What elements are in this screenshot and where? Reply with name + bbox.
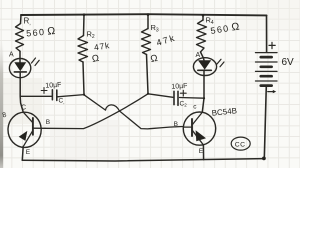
- wire: Q2 emitter to ground rail: [202, 145, 204, 160]
- node dot R3/C2 junction: [147, 93, 149, 95]
- battery plus sign: [269, 42, 275, 48]
- LED D1 circle: [9, 59, 30, 78]
- battery minus arrow mark: [268, 91, 274, 93]
- CC author oval: [231, 137, 250, 150]
- transistor Q1 base stroke: [33, 127, 45, 129]
- transistor Q1 emitter stroke: [24, 131, 33, 146]
- transistor Q2 collector stroke: [192, 112, 202, 124]
- LED D2 cathode bar: [198, 69, 212, 71]
- ground rail right corner blob: [262, 157, 266, 161]
- paper background: [0, 0, 300, 168]
- svg-text:B: B: [46, 119, 50, 126]
- svg-text:A: A: [196, 52, 201, 59]
- LED D2 triangle: [198, 60, 211, 69]
- node dot rail R2: [83, 13, 86, 16]
- svg-text:E: E: [199, 148, 204, 155]
- battery BT1 long plate 4: [256, 80, 278, 82]
- transistor Q1 base bar: [32, 118, 34, 135]
- resistor R1 560 ohm zigzag: [16, 24, 24, 52]
- wire: R1 top lead: [20, 15, 23, 24]
- wire: cross-coupling node to Q2 base (with hop): [84, 95, 184, 129]
- C2 plus sign: [180, 90, 186, 96]
- wire: C1 right lead to node: [57, 95, 84, 97]
- LED D2 circle: [193, 58, 216, 76]
- capacitor C2 plate left: [173, 91, 175, 104]
- page left edge shadow: [0, 42, 3, 168]
- wire: C2 right lead to LED2 cathode node: [180, 97, 205, 100]
- battery BT1 short plate 4: [261, 84, 272, 87]
- wire: top supply rail: [21, 14, 267, 15]
- svg-text:C: C: [21, 104, 26, 111]
- svg-text:C,: C,: [59, 98, 65, 105]
- battery BT1 long plate 1: [256, 52, 278, 54]
- svg-text:CC: CC: [235, 142, 246, 149]
- svg-text:10µF: 10µF: [171, 83, 187, 91]
- battery BT1 short plate 2: [261, 65, 272, 68]
- LED D2 light rays: [217, 59, 224, 67]
- transistor Q2 base stroke: [184, 126, 192, 128]
- wire: R1 to LED1: [19, 51, 21, 62]
- battery minus arrowhead: [273, 90, 276, 93]
- battery BT1 short plate 1: [261, 56, 272, 59]
- battery BT1 short plate 3: [261, 75, 272, 78]
- wire: R2 bottom lead to node: [83, 62, 84, 95]
- wire: R4 top lead: [202, 16, 204, 21]
- LED D1 triangle: [14, 62, 26, 71]
- transistor Q2 base bar: [191, 119, 193, 136]
- capacitor C1 plate left: [51, 90, 53, 100]
- battery BT1 long plate 3: [256, 70, 278, 72]
- wire: Q1 base to R3 node: [45, 94, 148, 129]
- node dot C1/R2/base junction: [83, 94, 85, 96]
- battery BT1 long plate 2: [256, 61, 278, 63]
- transistor Q1 emitter arrow: [19, 131, 28, 141]
- node dot rail R4: [202, 14, 205, 17]
- svg-text:A: A: [9, 52, 14, 59]
- C1 plus sign: [41, 88, 47, 94]
- wire: R3 top lead: [147, 15, 149, 29]
- capacitor C1 plate right: [56, 90, 58, 100]
- LED D1 cathode bar: [14, 71, 26, 73]
- capacitor C2 plate right: [177, 91, 179, 105]
- node dot C2/LED2 junction: [203, 97, 205, 99]
- node dot rail R3: [147, 13, 150, 16]
- wire: LED1 cathode down to collector node: [20, 72, 23, 112]
- svg-text:E: E: [26, 149, 31, 156]
- transistor Q2 emitter stroke: [192, 130, 203, 145]
- wire: LED2 cathode down to Q2 collector: [202, 71, 204, 113]
- paper mottling patches: [2, 78, 42, 124]
- transistor Q1 collector stroke: [23, 112, 32, 122]
- wire: bottom ground rail: [22, 159, 264, 161]
- svg-text:6V: 6V: [282, 57, 295, 68]
- resistor R3 47k zigzag: [142, 29, 151, 55]
- wire: battery top lead: [266, 15, 268, 52]
- resistor R4 560 ohm zigzag: [197, 20, 207, 52]
- transistor Q2 emitter arrow: [196, 130, 206, 141]
- wire: R3 bottom lead to node: [147, 55, 149, 94]
- resistor R2 47k zigzag: [78, 36, 88, 63]
- wire: R2 top lead: [83, 15, 86, 36]
- transistor Q1 circle: [8, 112, 41, 147]
- svg-text:B: B: [174, 121, 178, 128]
- svg-text:10µF: 10µF: [45, 82, 62, 90]
- wire: battery bottom lead: [264, 86, 266, 159]
- LED D1 light rays: [32, 58, 40, 66]
- wire: Q1 emitter to ground rail: [21, 146, 24, 160]
- wire: C1 left lead: [20, 95, 52, 97]
- wire: R4 to LED2: [201, 52, 205, 60]
- wire: C2 left lead: [148, 94, 173, 98]
- transistor Q2 circle: [183, 112, 215, 145]
